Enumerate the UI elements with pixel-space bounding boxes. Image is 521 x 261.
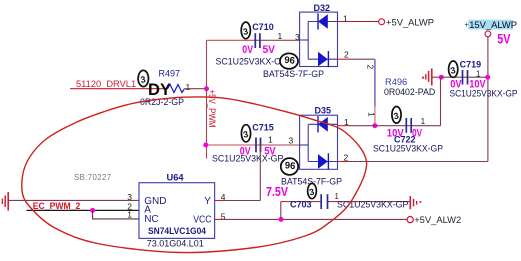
stamp GP circle near D35 bbox=[281, 158, 298, 175]
pin number 1 of C719 bbox=[476, 69, 480, 78]
svg-text:73.01G04.L01: 73.01G04.L01 bbox=[147, 238, 204, 249]
svg-text:5V: 5V bbox=[263, 44, 276, 56]
U64 pin name VCC bbox=[193, 215, 211, 226]
R497 value 0R2J-2-GP bbox=[140, 97, 184, 107]
ground pad symbol at C703 bbox=[410, 196, 421, 209]
svg-text:96: 96 bbox=[284, 159, 295, 171]
R496 pad symbol bbox=[422, 69, 432, 86]
pin number 2 of U64 bbox=[127, 201, 132, 211]
svg-text:C710: C710 bbox=[252, 22, 274, 32]
wire: 51120_DRVL1 net into R497 bbox=[70, 88, 168, 90]
pin number 2 of D32 bbox=[344, 50, 349, 60]
svg-text:51120_DRVL1: 51120_DRVL1 bbox=[76, 79, 136, 89]
wire: D35 pin2 row to +15V vertical bbox=[338, 161, 488, 163]
C719 part number bbox=[450, 89, 518, 99]
node junction dot at R496/C719 bbox=[439, 75, 444, 80]
svg-text:1: 1 bbox=[421, 117, 425, 126]
pin number 5 of U64 bbox=[221, 212, 226, 222]
svg-text:1: 1 bbox=[278, 31, 283, 41]
terminal circle +5V_ALWP bbox=[379, 19, 385, 25]
svg-text:1: 1 bbox=[127, 210, 132, 220]
U64 pin name NC bbox=[144, 214, 158, 225]
pin number 3 of D35 bbox=[289, 135, 294, 145]
wire: R496 to junction bbox=[433, 76, 442, 78]
wire: GND row to U64 pin3 bbox=[8, 199, 139, 201]
wire: +5V_PWM vertical riser bbox=[206, 40, 208, 158]
svg-text:2: 2 bbox=[344, 152, 349, 162]
net label EC_PWM_2 bbox=[33, 201, 81, 211]
svg-text:C715: C715 bbox=[252, 123, 274, 133]
wire: C722 row bbox=[375, 125, 441, 127]
svg-text:D32: D32 bbox=[314, 3, 331, 13]
diode pair D32 designator bbox=[314, 3, 331, 13]
svg-text:SC1U25V3KX-GP: SC1U25V3KX-GP bbox=[337, 200, 409, 210]
voltage note 0V at C722 bbox=[412, 128, 422, 140]
pin number 1 of C722 bbox=[421, 117, 425, 126]
pin number 2 of D35 bbox=[344, 152, 349, 162]
voltage note 5V at C715 bbox=[264, 146, 276, 158]
capacitor C719 designator bbox=[460, 59, 482, 69]
R496 value 0R0402-PAD bbox=[384, 87, 435, 97]
svg-text:C703: C703 bbox=[290, 200, 312, 210]
node junction dot on VCC row bbox=[279, 217, 284, 222]
D32 top diode (to pin 1) bbox=[308, 13, 337, 29]
wire: A input row (EC_PWM_2) bbox=[27, 209, 140, 211]
svg-text:15V_ALWP: 15V_ALWP bbox=[469, 19, 517, 30]
wire: Y output to riser bbox=[215, 200, 261, 202]
inspection stamp at C722 bbox=[392, 107, 401, 124]
net label 51120_DRVL1 bbox=[76, 79, 136, 89]
U64 part number SN74LVC1G04 bbox=[148, 225, 207, 236]
wire: VCC row to +5V_ALW2 bbox=[215, 218, 407, 220]
svg-text:2: 2 bbox=[344, 50, 349, 60]
capacitor C715 plates bbox=[256, 138, 261, 153]
svg-text:R496: R496 bbox=[385, 77, 407, 87]
D32 part number BAT54S-7F-GP bbox=[263, 69, 324, 79]
diode pair D35 designator bbox=[315, 106, 332, 116]
wire: D32 pin1 to +5V_ALWP terminal bbox=[338, 21, 379, 23]
svg-text:Y: Y bbox=[204, 196, 211, 207]
voltage note 5V at +15V_ALWP bbox=[497, 31, 510, 46]
voltage note 0V at C715 bbox=[240, 146, 251, 158]
svg-text:2: 2 bbox=[366, 65, 376, 70]
wire: vertical from D32 pin2 down (blue-purple traced) bbox=[374, 59, 376, 106]
svg-text:SC1U25V3KX-GP: SC1U25V3KX-GP bbox=[450, 89, 518, 99]
wire: vertical lower part (pink traced) bbox=[374, 107, 376, 126]
wire: D32 pin2 jog to vertical bbox=[338, 58, 375, 60]
svg-text:SC1U25V3KX-C: SC1U25V3KX-C bbox=[216, 57, 282, 67]
voltage note 10V at C722 bbox=[387, 128, 404, 140]
C710 part number SC1U25V3KX-C bbox=[216, 57, 282, 67]
net label +5V_ALW2 bbox=[414, 214, 461, 225]
svg-text:5V: 5V bbox=[497, 31, 510, 46]
pin number 1 of D35 bbox=[344, 117, 349, 127]
stamp GP circle near C710 bbox=[280, 53, 298, 68]
pin number 4 of U64 bbox=[221, 192, 226, 202]
svg-text:SC1U25V3KX-GP: SC1U25V3KX-GP bbox=[373, 143, 443, 153]
diode pair D32 box bbox=[300, 12, 338, 66]
voltage note 0V at C719 bbox=[450, 79, 462, 91]
svg-text:U64: U64 bbox=[167, 173, 185, 183]
svg-text:7.5V: 7.5V bbox=[266, 185, 289, 199]
U64 pin name GND bbox=[144, 196, 166, 207]
wire: riser from VCC row to C703 row bbox=[280, 202, 282, 220]
voltage note 0V at C710 bbox=[242, 44, 253, 56]
capacitor C710 plates bbox=[255, 33, 260, 48]
node junction dot on A row bbox=[90, 208, 95, 213]
node junction dot at C715 bbox=[203, 143, 208, 148]
pin number 3 of U64 bbox=[127, 192, 132, 202]
D32 inner bus wire bbox=[300, 22, 308, 60]
svg-text:NC: NC bbox=[144, 214, 158, 225]
DY marking bbox=[148, 80, 172, 99]
svg-text:3: 3 bbox=[127, 192, 132, 202]
resistor R496 designator bbox=[385, 77, 407, 87]
svg-text:3: 3 bbox=[289, 135, 294, 145]
node junction dot C719/+15V bbox=[485, 75, 490, 80]
capacitor C715 designator bbox=[252, 123, 274, 133]
SB:70227 note bbox=[74, 173, 111, 182]
svg-text:SC1U25V3KX-GP: SC1U25V3KX-GP bbox=[212, 154, 284, 164]
inverter U64 box bbox=[139, 183, 215, 239]
wire: NC tie from A row bbox=[93, 210, 139, 219]
U64 pin name Y bbox=[204, 196, 211, 207]
svg-text:BAT54S-7F-GP: BAT54S-7F-GP bbox=[263, 69, 324, 79]
svg-text:96: 96 bbox=[284, 53, 295, 65]
voltage note 5V at C710 bbox=[263, 44, 276, 56]
svg-text:SN74LVC1G04: SN74LVC1G04 bbox=[148, 225, 207, 236]
D35 top diode (to pin 1) bbox=[308, 116, 337, 132]
svg-text:5: 5 bbox=[221, 212, 226, 222]
svg-text:EC_PWM_2: EC_PWM_2 bbox=[33, 201, 81, 211]
capacitor C710 designator bbox=[252, 22, 274, 32]
svg-text:SB:70227: SB:70227 bbox=[74, 173, 111, 182]
capacitor C703 designator bbox=[290, 200, 312, 210]
pin number 1 of C715 bbox=[268, 135, 273, 145]
D35 inner bus wire bbox=[300, 124, 308, 161]
svg-text:R497: R497 bbox=[159, 68, 181, 78]
diode pair D35 box bbox=[300, 115, 338, 169]
D35 bottom diode (to pin 2) bbox=[308, 153, 337, 169]
pin number 3 of D32 bbox=[295, 32, 300, 42]
U64 pin name A bbox=[144, 205, 151, 216]
svg-text:0V: 0V bbox=[242, 44, 253, 56]
svg-text:+5V_ALW2: +5V_ALW2 bbox=[414, 214, 461, 225]
wire: vertical C722 right to R496 junction bbox=[440, 77, 442, 126]
svg-text:1: 1 bbox=[476, 69, 480, 78]
D32 bottom diode (to pin 2) bbox=[308, 51, 337, 67]
inspection stamp at R497 bbox=[138, 70, 148, 86]
svg-text:1: 1 bbox=[268, 135, 273, 145]
terminal circle +15V_ALWP bbox=[485, 31, 491, 37]
capacitor C719 plates bbox=[463, 70, 468, 85]
pin number 1 of U64 bbox=[127, 210, 132, 220]
red highlight ellipse annotation bbox=[22, 97, 367, 253]
svg-text:+: + bbox=[465, 22, 469, 29]
pin number 1 of R497 bbox=[186, 82, 191, 92]
svg-text:D35: D35 bbox=[315, 106, 332, 116]
C703 part number bbox=[337, 200, 409, 210]
wire: Y riser up to C715/D35 node bbox=[259, 145, 261, 201]
svg-text:1: 1 bbox=[186, 82, 191, 92]
svg-text:C719: C719 bbox=[460, 59, 482, 69]
inspection stamp at C703 bbox=[308, 183, 317, 198]
wire: C715 row horizontal bbox=[206, 144, 301, 146]
ground pad symbol EC_PWM net bbox=[2, 192, 8, 211]
resistor R497 designator bbox=[159, 68, 181, 78]
svg-text:0R0402-PAD: 0R0402-PAD bbox=[384, 87, 435, 97]
wire: D35 pin1 to junction bbox=[338, 125, 375, 127]
node junction dot D35 pin1 net bbox=[372, 123, 377, 128]
rotated pin number 2 along vertical bbox=[366, 65, 376, 70]
voltage note 10V at C719 bbox=[469, 79, 486, 91]
capacitor C722 plates bbox=[406, 118, 411, 133]
wire: R497 to +5V_PWM junction bbox=[185, 88, 207, 90]
voltage note 7.5V bbox=[266, 185, 289, 199]
wire: C710 row horizontal bbox=[207, 39, 301, 41]
node +5V_PWM junction dot bbox=[204, 86, 209, 91]
wire: +15V_ALWP vertical bbox=[487, 37, 489, 162]
svg-text:+5V_PWM: +5V_PWM bbox=[207, 90, 217, 128]
svg-text:BAT54S-7F-GP: BAT54S-7F-GP bbox=[281, 176, 342, 186]
C715 part number bbox=[212, 154, 284, 164]
inverter U64 designator bbox=[167, 173, 185, 183]
wire: C719 row bbox=[441, 76, 487, 78]
rotated pin number 1 along vertical bbox=[367, 112, 377, 117]
inspection stamp at C715 bbox=[241, 125, 250, 142]
U64 part code 73.01G04.L01 bbox=[147, 238, 204, 249]
inspection stamp at C710 bbox=[241, 22, 250, 39]
svg-text:1: 1 bbox=[367, 112, 377, 117]
+15V_ALWP highlighted net label bbox=[465, 19, 517, 30]
resistor R497 zigzag bbox=[168, 85, 185, 93]
D35 part number BAT54S-7F-GP bbox=[281, 176, 342, 186]
C722 part number bbox=[373, 143, 443, 153]
svg-text:+5V_ALWP: +5V_ALWP bbox=[386, 16, 434, 27]
pin number 1 of D32 bbox=[343, 13, 348, 23]
pin number 1 of C710 bbox=[278, 31, 283, 41]
capacitor C703 plates bbox=[321, 194, 327, 209]
terminal circle +5V_ALW2 bbox=[407, 217, 413, 223]
pin number 1 of C703 bbox=[335, 192, 339, 201]
inspection stamp at C719 bbox=[449, 61, 458, 77]
capacitor C722 designator bbox=[394, 134, 416, 144]
net label +5V_ALWP bbox=[386, 16, 434, 27]
wire: C703 row bbox=[281, 201, 410, 203]
net label +5V_PWM (vertical) bbox=[207, 90, 217, 128]
